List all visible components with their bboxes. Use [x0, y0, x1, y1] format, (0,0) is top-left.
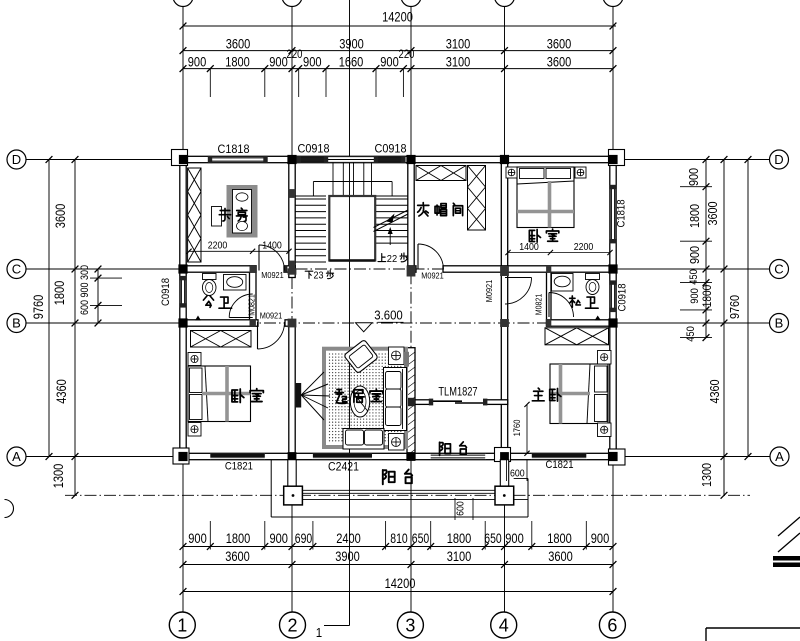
svg-text:810: 810 [390, 531, 407, 546]
svg-text:3100: 3100 [446, 36, 471, 51]
svg-text:650: 650 [412, 531, 429, 546]
svg-text:C0918: C0918 [617, 284, 629, 312]
svg-text:9760: 9760 [727, 295, 742, 319]
svg-text:6: 6 [607, 615, 617, 635]
svg-text:4360: 4360 [54, 379, 69, 404]
svg-text:600: 600 [510, 468, 525, 480]
svg-text:1800: 1800 [687, 204, 702, 228]
svg-text:B: B [12, 316, 21, 331]
svg-text:C0918: C0918 [375, 142, 407, 156]
svg-text:C1821: C1821 [546, 459, 574, 471]
svg-text:220: 220 [287, 49, 303, 61]
svg-text:300: 300 [79, 265, 91, 280]
svg-text:1400: 1400 [519, 241, 539, 253]
svg-text:450: 450 [688, 269, 700, 285]
svg-text:900: 900 [269, 531, 288, 546]
svg-text:4360: 4360 [707, 380, 722, 404]
svg-text:1800: 1800 [226, 531, 251, 546]
svg-text:3: 3 [405, 615, 415, 635]
svg-text:3600: 3600 [548, 549, 573, 564]
svg-text:C1818: C1818 [616, 200, 628, 228]
svg-text:4: 4 [499, 615, 509, 635]
svg-text:1800: 1800 [700, 285, 714, 308]
svg-text:D: D [12, 152, 21, 167]
svg-text:1: 1 [177, 615, 187, 635]
svg-text:1300: 1300 [699, 463, 714, 487]
svg-text:900: 900 [380, 54, 399, 69]
svg-text:2: 2 [287, 615, 297, 635]
svg-text:1: 1 [316, 625, 322, 640]
svg-text:600: 600 [455, 501, 467, 516]
svg-text:TLM1827: TLM1827 [438, 387, 477, 399]
svg-text:600: 600 [79, 300, 91, 315]
svg-text:23: 23 [314, 271, 324, 282]
svg-text:C1821: C1821 [225, 461, 253, 473]
svg-text:A: A [775, 449, 784, 464]
svg-text:900: 900 [79, 283, 91, 298]
svg-text:650: 650 [484, 531, 501, 546]
svg-text:14200: 14200 [385, 576, 416, 591]
svg-text:900: 900 [303, 54, 322, 69]
svg-text:3600: 3600 [53, 204, 68, 229]
svg-text:450: 450 [685, 326, 697, 342]
svg-text:1800: 1800 [225, 54, 250, 69]
svg-text:1760: 1760 [512, 420, 523, 437]
svg-text:M0821: M0821 [247, 294, 256, 316]
svg-text:3100: 3100 [447, 549, 472, 564]
svg-text:D: D [774, 152, 783, 167]
svg-text:C0918: C0918 [160, 278, 172, 306]
svg-text:C: C [774, 262, 783, 277]
svg-text:C2421: C2421 [328, 460, 359, 474]
svg-text:M0921: M0921 [260, 311, 283, 321]
svg-text:3600: 3600 [547, 36, 572, 51]
svg-text:A: A [12, 449, 21, 464]
svg-text:C: C [12, 262, 21, 277]
svg-text:3600: 3600 [705, 202, 720, 226]
svg-text:22: 22 [387, 253, 398, 265]
svg-text:3600: 3600 [226, 36, 251, 51]
svg-text:3900: 3900 [339, 36, 364, 51]
svg-text:690: 690 [295, 531, 312, 546]
svg-text:900: 900 [188, 54, 207, 69]
svg-text:3900: 3900 [335, 549, 360, 564]
svg-text:M0921: M0921 [261, 270, 284, 280]
svg-text:1800: 1800 [52, 281, 67, 306]
svg-text:900: 900 [686, 168, 701, 186]
svg-text:220: 220 [399, 49, 415, 61]
svg-text:2400: 2400 [336, 531, 361, 546]
svg-text:900: 900 [188, 531, 207, 546]
svg-text:900: 900 [505, 531, 524, 546]
svg-text:1660: 1660 [339, 54, 364, 69]
svg-text:M0921: M0921 [421, 271, 444, 281]
svg-text:14200: 14200 [382, 10, 413, 25]
svg-text:3100: 3100 [446, 54, 471, 69]
svg-text:C0918: C0918 [298, 142, 330, 156]
svg-text:900: 900 [687, 246, 702, 264]
svg-text:3600: 3600 [547, 54, 572, 69]
svg-text:B: B [775, 316, 784, 331]
svg-text:M0921: M0921 [484, 280, 494, 303]
svg-text:1300: 1300 [51, 464, 66, 489]
svg-text:3600: 3600 [225, 549, 250, 564]
svg-text:2200: 2200 [208, 240, 228, 252]
svg-text:900: 900 [591, 531, 610, 546]
svg-text:2200: 2200 [574, 241, 594, 253]
svg-text:3.600: 3.600 [374, 309, 403, 323]
svg-text:900: 900 [269, 54, 288, 69]
svg-text:1800: 1800 [447, 531, 472, 546]
svg-text:9760: 9760 [31, 295, 46, 320]
svg-text:C1818: C1818 [218, 142, 250, 156]
svg-text:M0821: M0821 [535, 293, 544, 315]
svg-text:1800: 1800 [547, 531, 572, 546]
